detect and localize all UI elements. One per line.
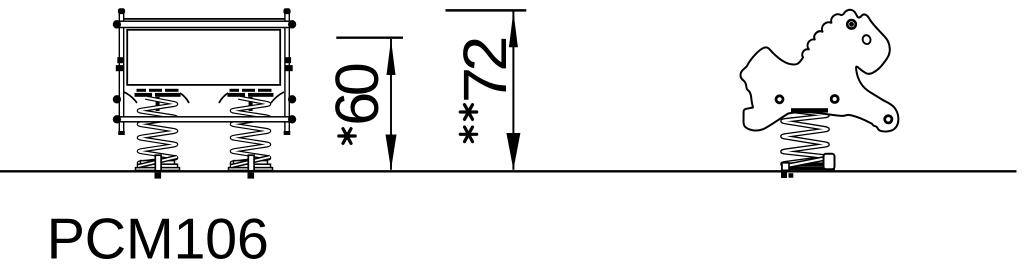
right post top cap [283, 8, 290, 14]
left spring ground anchor [155, 173, 162, 179]
left view: right post [285, 9, 289, 133]
left post bolt [116, 65, 123, 71]
right spring base plates [229, 161, 273, 171]
top plank line [123, 18, 286, 20]
left spring bottom coil strand [138, 157, 177, 166]
plate gaps [146, 89, 258, 97]
lower foot tube (drawn over springs) [116, 117, 294, 122]
left spring base plates [136, 161, 180, 171]
top tube right ball [288, 20, 296, 28]
left post sleeve [117, 57, 123, 63]
right spring top plate [228, 89, 274, 97]
svg-text:60: 60 [323, 64, 391, 126]
right spring ground anchor [248, 173, 255, 179]
horse base left foot pad [782, 163, 789, 171]
brace curve right post to right spring [271, 92, 284, 103]
top tube left ball [113, 20, 121, 28]
horse spring base plate [781, 162, 835, 170]
mid rail right ball [288, 95, 296, 103]
brace curve right of left spring [180, 93, 189, 103]
right spring coil [232, 98, 269, 167]
right spring center post [248, 155, 254, 171]
brace curve left of right spring [219, 93, 228, 103]
dimension 60: top arrowhead [387, 40, 396, 76]
body panel [127, 30, 280, 85]
dimension 72: bottom arrowhead [506, 133, 520, 170]
left spring bolt column [156, 97, 160, 111]
dimension 60: bottom arrowhead [386, 135, 397, 170]
horse body outline [740, 10, 898, 132]
svg-text:72: 72 [452, 39, 520, 103]
right spring bottom coil strand [231, 157, 270, 166]
left view: left post [119, 9, 123, 133]
right post bolt [285, 65, 292, 71]
left post bottom foot [118, 131, 125, 135]
horse seat bolt left [776, 96, 783, 103]
dimension 72: vertical line [512, 12, 514, 170]
horse ground anchor 1 [781, 173, 787, 179]
horse ground anchor 2 [789, 173, 794, 178]
horse spring base bracket [824, 154, 835, 170]
left spring coil [139, 98, 176, 167]
right post sleeve [285, 57, 291, 63]
horse spring coil [783, 110, 828, 167]
brace curve left post to left spring [124, 92, 137, 103]
horse spring bottom coil strand [784, 158, 827, 167]
lower tube left ball [113, 115, 121, 123]
right spring bolt column [249, 97, 253, 111]
dimension 72: asterisk 2 [460, 127, 476, 142]
horse spring upper plate (under belly) [791, 108, 828, 112]
horse seat bolt right [831, 96, 838, 103]
right post bottom foot [284, 131, 291, 135]
top handle tube [116, 21, 294, 27]
dimension 72: asterisk 1 [460, 105, 476, 120]
left spring center post [155, 155, 161, 171]
dimension 72: top arrowhead [509, 12, 518, 48]
horse eye [847, 20, 856, 29]
ground line [0, 170, 1017, 172]
left spring top plate [135, 89, 181, 97]
dimension 60: vertical line [390, 39, 392, 170]
horse nostril [862, 34, 872, 45]
left post top cap [118, 8, 125, 14]
dimension 72: top tick [446, 9, 527, 12]
dimension 60: top tick [336, 37, 403, 39]
dimension 60: asterisk [339, 129, 355, 144]
mid rail left ball [113, 95, 121, 103]
horse footrest bolt [885, 116, 892, 123]
svg-text:PCM106: PCM106 [47, 207, 269, 269]
lower tube right ball [288, 115, 296, 123]
